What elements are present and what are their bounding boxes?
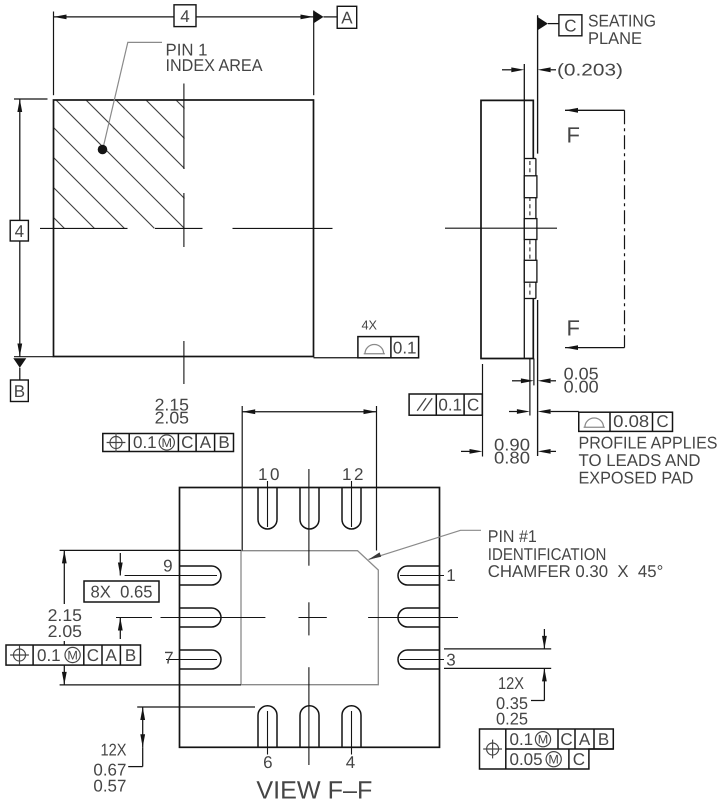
svg-text:0.1: 0.1	[133, 433, 157, 452]
svg-text:0.00: 0.00	[564, 378, 599, 397]
svg-text:0.1: 0.1	[37, 646, 61, 665]
svg-text:0.05: 0.05	[510, 750, 543, 769]
svg-text:SEATING: SEATING	[588, 12, 656, 31]
svg-text:F: F	[567, 316, 580, 341]
svg-text:B: B	[14, 382, 25, 401]
svg-text:3: 3	[446, 651, 455, 670]
svg-text:4X: 4X	[362, 318, 378, 333]
svg-text:12X: 12X	[101, 740, 127, 759]
svg-text:4: 4	[15, 222, 24, 241]
svg-text:PROFILE APPLIES: PROFILE APPLIES	[579, 434, 718, 453]
svg-text:PIN #1: PIN #1	[488, 527, 537, 546]
svg-text:B: B	[125, 646, 136, 665]
svg-text:M: M	[67, 648, 78, 662]
svg-text:VIEW F–F: VIEW F–F	[256, 776, 372, 804]
svg-text:4: 4	[180, 7, 189, 26]
svg-text:0.57: 0.57	[93, 776, 126, 795]
svg-text:C: C	[181, 433, 193, 452]
svg-text:A: A	[200, 433, 212, 452]
svg-text:0.1: 0.1	[393, 338, 417, 357]
svg-text:8X 0.65: 8X 0.65	[91, 582, 153, 601]
svg-text:CHAMFER 0.30 X 45°: CHAMFER 0.30 X 45°	[488, 562, 664, 581]
svg-text:10: 10	[258, 465, 282, 484]
svg-text:0.08: 0.08	[613, 412, 649, 431]
svg-text:12: 12	[342, 465, 366, 484]
svg-text:PLANE: PLANE	[588, 29, 642, 48]
svg-text:M: M	[538, 733, 549, 747]
svg-text:0.1: 0.1	[438, 396, 462, 415]
svg-text:B: B	[218, 433, 229, 452]
svg-text:A: A	[341, 9, 353, 28]
svg-text:A: A	[579, 730, 591, 749]
svg-text:INDEX AREA: INDEX AREA	[166, 56, 264, 75]
svg-text:0.1: 0.1	[510, 730, 534, 749]
svg-text:B: B	[598, 730, 609, 749]
svg-text:C: C	[564, 16, 576, 35]
svg-text:C: C	[467, 396, 479, 415]
svg-text:EXPOSED PAD: EXPOSED PAD	[579, 469, 694, 488]
svg-text:(0.203): (0.203)	[557, 61, 623, 80]
svg-text:M: M	[548, 753, 559, 767]
svg-text:C: C	[560, 730, 572, 749]
svg-text:2.05: 2.05	[155, 409, 189, 428]
svg-text:C: C	[87, 646, 99, 665]
svg-text:6: 6	[263, 753, 272, 772]
svg-text:F: F	[567, 122, 580, 147]
svg-text:C: C	[656, 412, 668, 431]
svg-text:12X: 12X	[498, 674, 524, 693]
svg-text:7: 7	[164, 649, 173, 668]
svg-text:2.05: 2.05	[48, 622, 82, 641]
svg-text:0.80: 0.80	[494, 449, 530, 468]
svg-text:C: C	[573, 750, 585, 769]
svg-text:1: 1	[446, 566, 455, 585]
svg-text:0.25: 0.25	[496, 709, 528, 728]
svg-text:TO LEADS AND: TO LEADS AND	[579, 451, 701, 470]
svg-text:A: A	[106, 646, 118, 665]
svg-text:4: 4	[346, 753, 355, 772]
svg-text:9: 9	[163, 557, 172, 576]
svg-text:M: M	[162, 436, 173, 450]
